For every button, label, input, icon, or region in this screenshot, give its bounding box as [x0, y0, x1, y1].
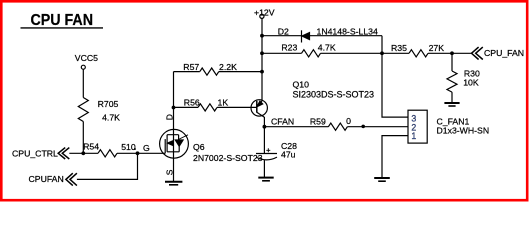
svg-text:R54: R54	[83, 142, 99, 152]
wire R57 net	[174, 71, 200, 73]
wire R56 to Q10 base	[217, 106, 257, 108]
svg-text:CPU_FAN: CPU_FAN	[484, 48, 524, 58]
resistor R30	[447, 71, 457, 92]
wire D2-R23 vertical link	[381, 36, 383, 54]
svg-text:CPUFAN: CPUFAN	[29, 174, 64, 184]
wire C28 to ground	[263, 160, 265, 177]
wire CFAN net	[264, 126, 328, 128]
node dot CFAN/Q10	[263, 125, 267, 129]
svg-text:R23: R23	[281, 43, 297, 53]
wire CPU_CTRL net	[69, 152, 98, 154]
svg-text:1: 1	[411, 131, 416, 141]
wire C28 branch	[263, 127, 265, 154]
transistor Q10	[251, 100, 267, 116]
resistor R54	[98, 150, 117, 157]
wire R35 to CPU_FAN port	[428, 52, 472, 54]
ground under pin1	[374, 177, 390, 179]
connector C_FAN1 body	[408, 110, 427, 143]
svg-text:D1x3-WH-SN: D1x3-WH-SN	[437, 126, 490, 136]
resistor R23	[302, 50, 321, 57]
svg-text:CPU FAN: CPU FAN	[31, 12, 94, 29]
svg-text:CPU_CTRL: CPU_CTRL	[12, 149, 58, 159]
svg-text:510: 510	[121, 142, 136, 152]
svg-text:R35: R35	[391, 43, 407, 53]
svg-text:2.2K: 2.2K	[219, 62, 237, 72]
node dot pin3 branch	[380, 51, 384, 55]
node dot +12V/R23	[260, 51, 264, 55]
wire R30 to ground	[451, 92, 453, 103]
wire +12V rail vertical	[261, 19, 263, 102]
wire Q10 collector	[263, 117, 265, 127]
node dot CPUFAN join	[136, 151, 140, 155]
svg-text:SI2303DS-S-SOT23: SI2303DS-S-SOT23	[293, 89, 375, 99]
wire R23 to R35	[321, 52, 410, 54]
resistor R56	[198, 104, 217, 111]
svg-text:R56: R56	[184, 98, 200, 108]
svg-text:Q10: Q10	[293, 80, 310, 90]
resistor R35	[409, 50, 428, 57]
ground under C28	[258, 177, 273, 179]
resistor R59	[328, 123, 347, 130]
wire Q6 drain-source vertical	[173, 72, 175, 182]
svg-text:R705: R705	[98, 99, 119, 109]
svg-text:R57: R57	[183, 62, 199, 72]
svg-text:G: G	[143, 143, 150, 153]
port chevron CPU_CTRL	[58, 148, 69, 159]
svg-text:Q6: Q6	[193, 142, 205, 152]
svg-text:1N4148-S-LL34: 1N4148-S-LL34	[317, 27, 379, 37]
capacitor C28	[256, 153, 277, 155]
svg-text:S: S	[164, 169, 174, 175]
node dot R59 right	[361, 125, 365, 129]
wire R56 net	[174, 106, 199, 108]
stray dot after 510	[134, 148, 136, 150]
svg-text:10K: 10K	[463, 78, 479, 88]
svg-text:D2: D2	[278, 27, 289, 37]
transistor Q6	[160, 129, 189, 158]
wire D2 net top	[262, 35, 382, 37]
node dot +12V/D2	[260, 34, 264, 38]
svg-text:R59: R59	[310, 116, 326, 126]
wire R30 branch	[451, 53, 453, 71]
wire R54 to Q6 gate	[117, 152, 165, 154]
svg-text:D: D	[165, 114, 175, 120]
ground under R30	[444, 102, 459, 104]
ground under Q6	[165, 181, 182, 183]
wire CPUFAN net	[77, 153, 138, 179]
node dot R705/CPU_CTRL	[81, 151, 85, 155]
svg-text:CFAN: CFAN	[271, 117, 294, 127]
svg-text:+12V: +12V	[254, 8, 275, 18]
resistor R705	[78, 98, 88, 122]
node dot R30 branch	[450, 51, 454, 55]
svg-text:0: 0	[346, 116, 351, 126]
port chevron CPU_FAN	[472, 47, 483, 59]
diode D2	[301, 30, 303, 42]
terminal VCC5	[81, 65, 85, 69]
svg-text:4.7K: 4.7K	[318, 43, 336, 53]
wire connector pin3 vertical	[382, 53, 408, 117]
svg-text:27K: 27K	[429, 43, 445, 53]
svg-text:1K: 1K	[218, 97, 229, 107]
wire connector pin1 to ground	[382, 136, 408, 177]
svg-text:4.7K: 4.7K	[102, 113, 120, 123]
power terminal +12V	[260, 14, 264, 18]
wire VCC5 down	[82, 69, 84, 97]
svg-text:VCC5: VCC5	[75, 53, 98, 63]
port chevron CPUFAN	[66, 173, 77, 185]
wire R59 to connector pin2	[347, 126, 408, 128]
wire R57 right	[219, 71, 262, 73]
wire R705 to CPU_CTRL net	[82, 122, 84, 154]
svg-text:47u: 47u	[281, 150, 296, 160]
wire R23 net	[262, 52, 302, 54]
node dot R56/drain	[172, 106, 176, 110]
svg-text:2N7002-S-SOT23: 2N7002-S-SOT23	[193, 153, 263, 163]
node dot +12V/R57	[260, 70, 264, 74]
title underline	[21, 27, 104, 29]
resistor R57	[200, 68, 219, 75]
